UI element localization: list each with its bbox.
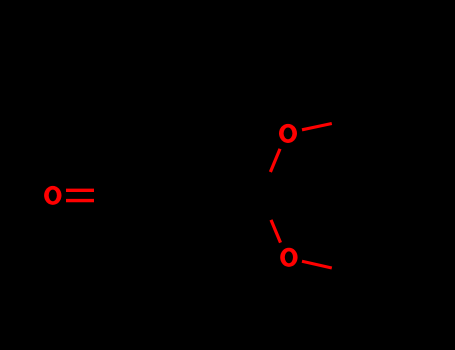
bond acetal carbon to lower O	[271, 220, 281, 243]
carbonyl oxygen atom label O	[44, 186, 61, 205]
bond lower O to ethoxy CH2	[302, 261, 332, 268]
upper ether oxygen atom label O	[279, 124, 297, 143]
C=O double bond lower line	[66, 199, 94, 202]
lower ether oxygen atom label O	[280, 248, 297, 267]
bond upper O to acetal carbon	[270, 149, 280, 172]
C=O double bond upper line	[66, 189, 94, 192]
bond upper O to ethoxy CH2	[302, 124, 332, 130]
